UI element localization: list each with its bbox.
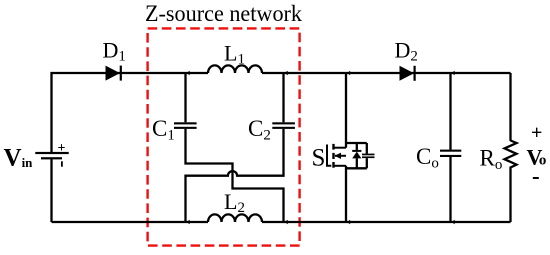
svg-text:+: + [58, 141, 66, 156]
svg-text:Vin: Vin [4, 145, 34, 172]
wire: top rail from L1 to right corner [262, 72, 511, 74]
body diode of S [346, 143, 367, 168]
capacitor Co branch wire bottom [449, 157, 451, 222]
wire: bottom rail left segment [52, 221, 209, 223]
body lead with arrow [335, 155, 346, 157]
svg-text:Ro: Ro [480, 146, 503, 174]
svg-text:L1: L1 [224, 41, 245, 68]
svg-text:+: + [531, 122, 542, 144]
capacitor of S (snubber) [362, 143, 375, 168]
node: Co bottom junction [451, 220, 454, 224]
node: switch top junction [347, 71, 350, 75]
gate plate [327, 145, 331, 166]
inductor L1 [208, 65, 262, 73]
voltage source Vin (battery) [35, 141, 68, 167]
svg-text:L2: L2 [224, 189, 245, 216]
svg-text:-: - [532, 164, 540, 189]
diode D1 [106, 66, 122, 81]
node: top-left Z node (junction dot) [186, 71, 189, 75]
node: bottom-right Z node (junction dot) [284, 220, 287, 224]
wire: top rail left segment (input corner to L1) [52, 73, 209, 153]
node: switch bottom junction [347, 220, 350, 224]
diode D2 [400, 66, 416, 81]
capacitor Co branch wire top [449, 73, 451, 150]
svg-text:C1: C1 [152, 116, 175, 144]
node: bottom-left Z node (junction dot) [186, 220, 189, 224]
wire: C1 bottom to cross link (down, right, down, right, down to bottom-right node) [186, 129, 284, 222]
resistor Ro [505, 141, 517, 171]
Z-source network dashed boundary box [148, 28, 300, 245]
wire: bottom rail from L2 to right corner [262, 221, 511, 223]
svg-text:C2: C2 [248, 116, 271, 144]
inductor L2 [208, 214, 262, 222]
capacitor C2 [272, 73, 295, 129]
wire: right rail (output side) [509, 73, 511, 141]
transistor S (MOSFET) [327, 144, 346, 168]
switch S branch: drain wire from top rail [345, 73, 347, 148]
capacitor Co [440, 150, 461, 157]
node: top-right Z node (junction dot) [284, 71, 287, 75]
svg-text:Co: Co [416, 144, 439, 172]
channel segments [332, 144, 334, 150]
node: Co top junction [451, 71, 454, 75]
drain lead [334, 147, 347, 149]
svg-text:Z-source network: Z-source network [145, 1, 302, 26]
wire: left rail below battery [50, 159, 52, 223]
svg-text:S: S [312, 144, 326, 171]
source lead [334, 165, 347, 167]
capacitor C1 [174, 73, 197, 129]
svg-text:D2: D2 [395, 38, 418, 65]
wire: C2 bottom to cross link with hop over (down, left with bump, down to bottom-left node) [186, 129, 284, 222]
switch S branch: source wire to bottom rail [345, 166, 347, 222]
svg-text:D1: D1 [103, 38, 126, 65]
